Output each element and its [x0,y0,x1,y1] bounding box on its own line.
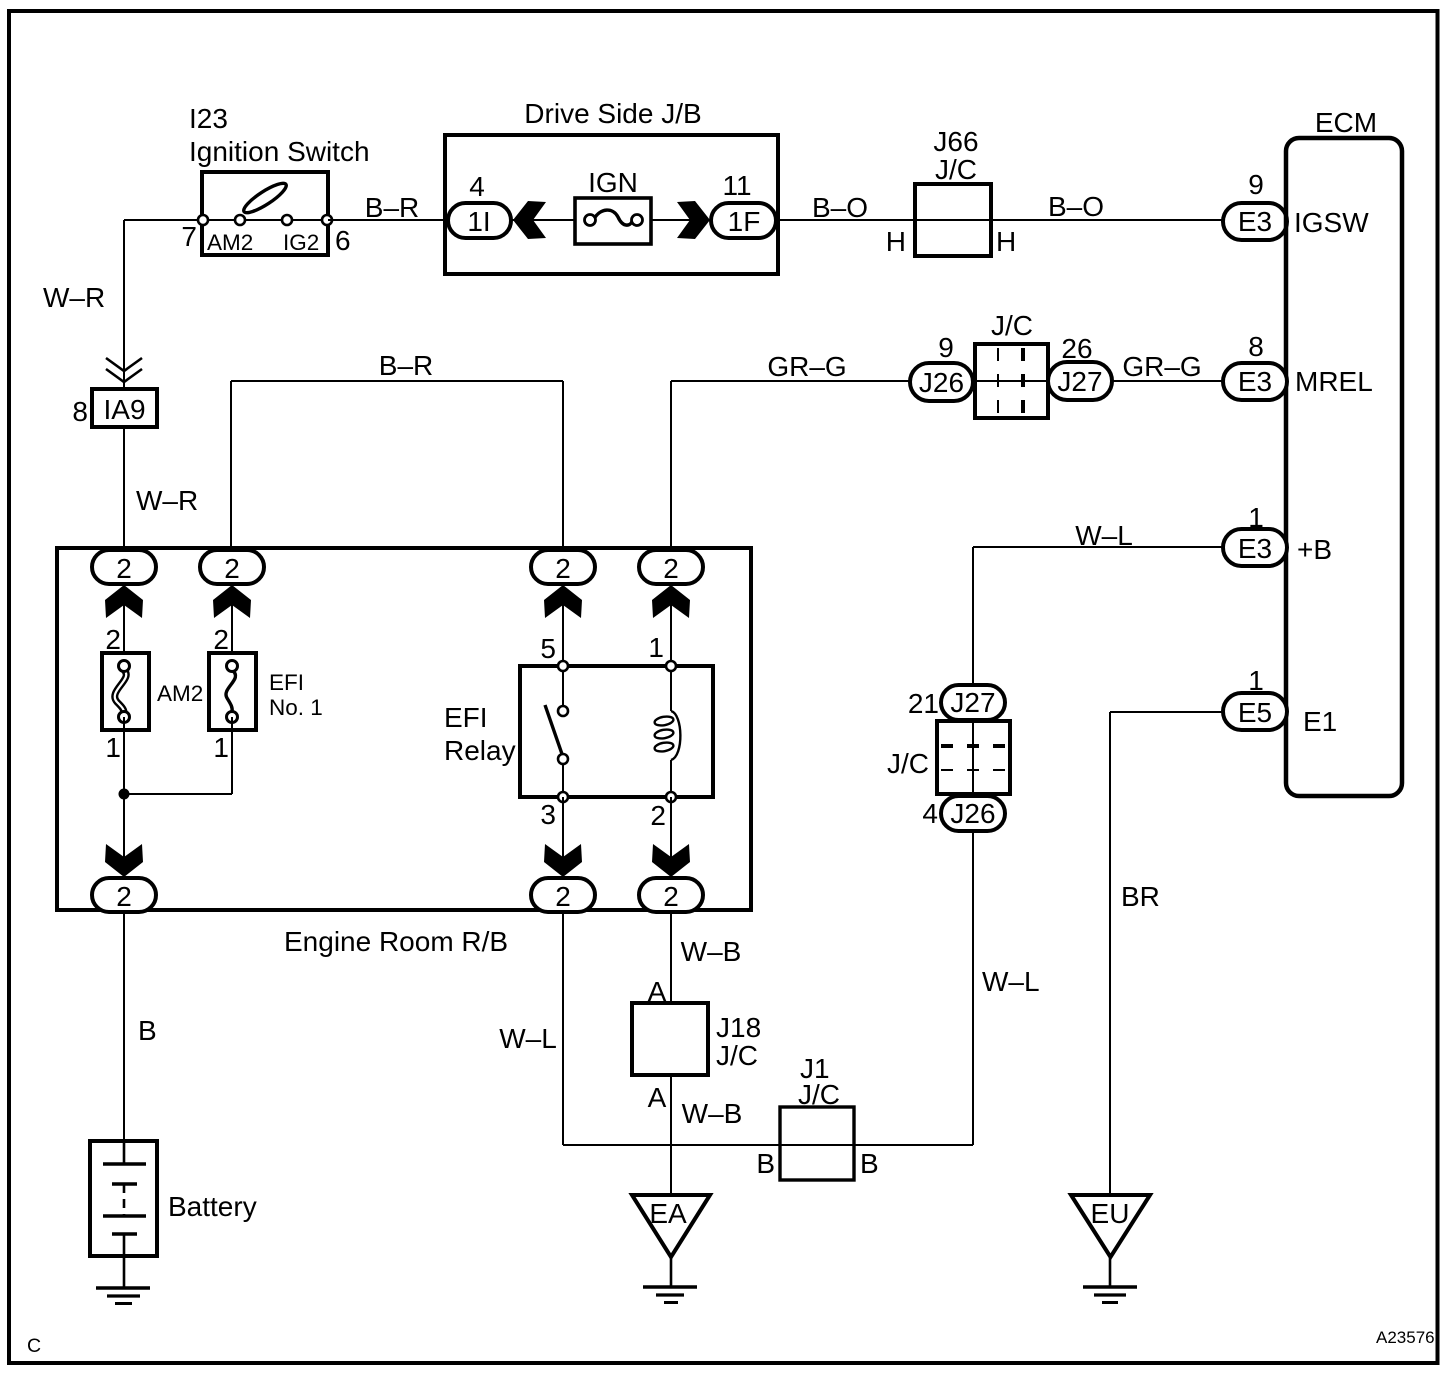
junction connector J18 J/C [632,1003,761,1075]
wire B-R net: vertical at x563 [562,381,564,552]
svg-text:W–L: W–L [499,1023,557,1054]
connector E3 pin 1 +B [1223,502,1287,566]
fuse AM2 [102,653,203,730]
svg-text:H: H [886,226,906,257]
connector J27 pin 26 [1048,333,1112,400]
svg-text:J18: J18 [716,1012,761,1043]
svg-text:2: 2 [663,553,679,584]
ground EA [632,1195,710,1303]
connector 2 top col4 [639,550,703,584]
connector J26 pin 4 [922,796,1005,831]
wire col2 oval to fuse EFI [231,584,233,666]
wire E1 net from E5 [1110,711,1225,713]
wire B-O from J66 to ECM IGSW [991,219,1225,221]
connector 2 bottom col3 [531,878,595,912]
svg-text:I23: I23 [189,103,228,134]
svg-text:J/C: J/C [716,1040,758,1071]
svg-text:B–R: B–R [365,192,419,223]
wire B-R switch to J/B [328,219,448,221]
wire GR-G net: horizontal to J26 [671,380,912,382]
svg-text:W–R: W–R [43,282,105,313]
svg-text:No. 1: No. 1 [269,695,323,720]
svg-text:BR: BR [1121,881,1160,912]
arrow down col4 [652,844,690,877]
svg-text:Ignition Switch: Ignition Switch [189,136,370,167]
svg-text:2: 2 [213,624,229,655]
connector E3 pin 9 IGSW [1223,169,1287,240]
ECM module [1286,107,1402,796]
wire inside J/B right [634,219,714,221]
svg-text:1: 1 [105,732,121,763]
svg-text:Drive Side J/B: Drive Side J/B [524,98,701,129]
svg-text:E3: E3 [1238,366,1272,397]
wire W-B col4 down to J18 [670,912,672,1003]
connector 1I pin 4 [448,171,511,238]
svg-text:2: 2 [650,800,666,831]
junction connector J66 J/C [915,126,991,256]
svg-text:E1: E1 [1303,706,1337,737]
svg-text:E3: E3 [1238,206,1272,237]
Engine Room R/B box [57,548,751,957]
ground EU [1071,1195,1150,1303]
svg-text:H: H [996,226,1016,257]
svg-text:W–B: W–B [681,936,742,967]
svg-text:1I: 1I [467,206,490,237]
svg-text:2: 2 [116,881,132,912]
svg-text:9: 9 [1248,169,1264,200]
connector 2 top col2 [200,550,264,584]
connector 2 bottom col1 [92,878,156,912]
svg-text:AM2: AM2 [207,230,253,255]
svg-text:1F: 1F [728,206,761,237]
svg-text:B–O: B–O [812,192,868,223]
svg-text:Engine Room R/B: Engine Room R/B [284,926,508,957]
arrow into 1I [513,201,546,239]
ignition switch I23 [189,103,370,255]
connector 2 top col3 [531,550,595,584]
wire col1 oval to fuse AM2 [123,584,125,666]
svg-text:1: 1 [1248,665,1264,696]
connector E3 pin 8 MREL [1223,331,1287,400]
svg-text:IGSW: IGSW [1294,207,1369,238]
wire W-B from J18 to EA ground [670,1075,672,1196]
wire B battery feed [123,912,125,1141]
svg-text:B: B [860,1148,879,1179]
svg-text:8: 8 [72,396,88,427]
svg-text:GR–G: GR–G [1122,351,1201,382]
svg-text:W–L: W–L [1075,520,1133,551]
svg-text:21: 21 [908,688,939,719]
svg-text:J27: J27 [1057,366,1102,397]
wire col3 oval to relay pin 5 [562,584,564,666]
junction connector J/C (J26-J27) [975,310,1048,418]
svg-text:J66: J66 [933,126,978,157]
svg-text:2: 2 [555,553,571,584]
svg-text:Battery: Battery [168,1191,257,1222]
connector 2 top col1 [92,550,156,584]
arrow up col3 [544,585,582,618]
connector 2 bottom col4 [639,878,703,912]
svg-text:MREL: MREL [1295,366,1373,397]
arrow down col3 [544,844,582,877]
svg-text:J/C: J/C [935,154,977,185]
svg-text:J26: J26 [950,798,995,829]
wire through J66 [915,219,991,221]
wire B-R net: horizontal [231,380,563,382]
fuse IGN [575,167,651,244]
wire junction horizontal [124,793,232,795]
wire col3 relay pin3 down [562,797,564,878]
Drive Side J/B box [445,98,778,274]
svg-text:EU: EU [1091,1198,1130,1229]
wire B-R net: vertical at x231 [230,381,232,552]
svg-text:2: 2 [224,553,240,584]
junction connector J1 J/C [780,1053,854,1180]
svg-text:6: 6 [335,225,351,256]
relay switch contact [545,666,568,797]
svg-text:GR–G: GR–G [767,351,846,382]
svg-text:E5: E5 [1238,697,1272,728]
svg-text:+B: +B [1297,534,1332,565]
svg-text:9: 9 [938,332,954,363]
svg-text:W–B: W–B [682,1098,743,1129]
svg-text:IGN: IGN [588,167,638,198]
relay coil [654,666,680,797]
svg-text:2: 2 [105,624,121,655]
svg-text:5: 5 [540,633,556,664]
arrow into 1F [677,201,710,239]
svg-text:W–R: W–R [136,485,198,516]
arrow up col1 [105,585,143,618]
svg-text:1: 1 [1248,502,1264,533]
relay pin circles [558,661,676,802]
arrow up col4 [652,585,690,618]
svg-text:IG2: IG2 [283,230,319,255]
svg-text:26: 26 [1061,333,1092,364]
svg-text:J26: J26 [919,367,964,398]
svg-text:ECM: ECM [1315,107,1377,138]
svg-text:J/C: J/C [991,310,1033,341]
svg-text:J/C: J/C [887,748,929,779]
svg-text:E3: E3 [1238,533,1272,564]
fuse EFI No. 1 [209,653,323,730]
wire W-L horizontal to J1 and right [563,1144,973,1146]
connector J27 pin 21 [908,685,1005,720]
arrow down col1 [105,844,143,877]
wire GR-G J27 to E3 [1112,380,1225,382]
wire W-L from J26 down [972,831,974,1145]
connector IA9 [92,389,157,427]
connector J26 pin 9 [910,332,973,401]
wire fuse EFI down [231,717,233,794]
wire W-R horizontal from corner to ignition switch pin 7 [124,219,203,221]
svg-text:EFI: EFI [444,702,488,733]
wire W-R from IA9 to Engine Room R/B [123,427,125,552]
connector 1F pin 11 [711,170,776,238]
svg-text:8: 8 [1248,331,1264,362]
wire W-R vertical down to IA9 [123,220,125,389]
svg-text:3: 3 [540,799,556,830]
svg-text:1: 1 [213,732,229,763]
junction connector J/C (J27-J26 lower) [887,721,1010,794]
svg-text:4: 4 [469,171,485,202]
wire GR-G net: vertical at x671 [670,381,672,552]
svg-text:2: 2 [555,881,571,912]
svg-text:B–O: B–O [1048,191,1104,222]
wire fuse AM2 to junction [123,717,125,845]
svg-text:A: A [648,1082,667,1113]
svg-text:A23576: A23576 [1376,1328,1435,1347]
svg-text:EA: EA [649,1198,687,1229]
svg-text:7: 7 [181,221,197,252]
svg-text:EFI: EFI [269,670,304,695]
wire col4 relay pin2 down [670,797,672,878]
svg-text:J27: J27 [950,687,995,718]
wire W-L vertical to J27 [972,547,974,687]
svg-text:Relay: Relay [444,735,516,766]
svg-text:2: 2 [663,881,679,912]
svg-text:2: 2 [116,553,132,584]
svg-text:4: 4 [922,798,938,829]
wire W-L net: horizontal from E3 +B [973,546,1225,548]
wire BR vertical to EU ground [1109,712,1111,1196]
svg-text:B: B [138,1015,157,1046]
connector arrow into IA9 (double chevron) [106,358,142,382]
battery [90,1141,257,1256]
arrow up col2 [213,585,251,618]
wire inside J/B left [510,219,592,221]
relay EFI [444,666,713,797]
svg-text:1: 1 [648,632,664,663]
wire col1 junction to bottom oval [123,845,125,878]
svg-text:W–L: W–L [982,966,1040,997]
svg-text:IA9: IA9 [103,394,145,425]
wire W-L col3 down [562,912,564,1145]
svg-text:AM2: AM2 [157,681,203,706]
ground battery [96,1256,150,1304]
svg-text:C: C [27,1335,41,1357]
junction dot [119,789,130,800]
connector E5 pin 1 E1 [1223,665,1287,730]
svg-text:B: B [756,1148,775,1179]
wire B-O from J/B to J66 [778,219,915,221]
svg-text:B–R: B–R [379,350,433,381]
wire col4 oval to relay pin 1 [670,584,672,666]
svg-text:11: 11 [722,170,751,201]
